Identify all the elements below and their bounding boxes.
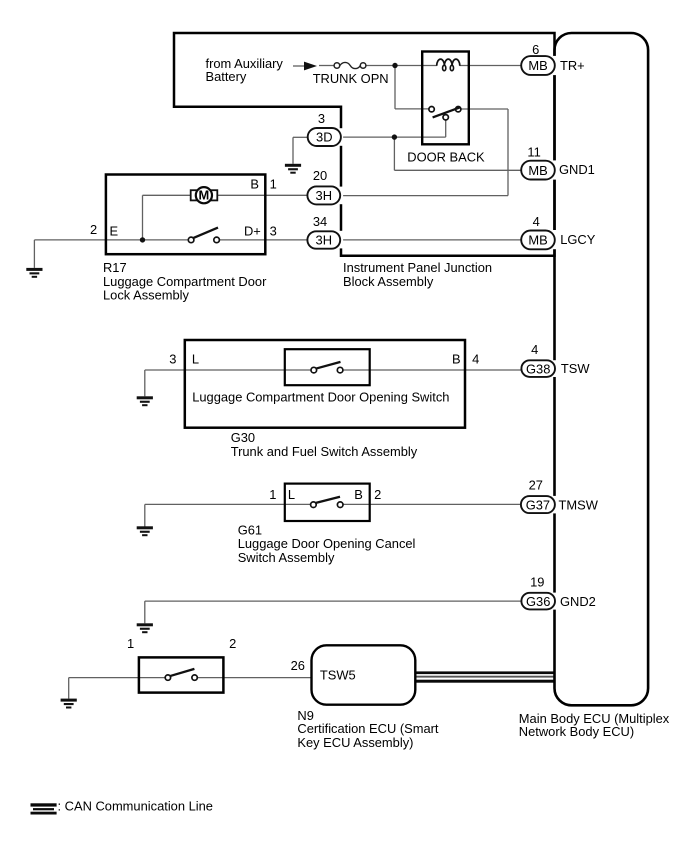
svg-text:G61: G61 <box>238 522 262 537</box>
svg-text:3H: 3H <box>316 233 332 248</box>
svg-text:GND2: GND2 <box>560 594 596 609</box>
svg-text:Lock Assembly: Lock Assembly <box>103 287 190 302</box>
svg-text:Network Body ECU): Network Body ECU) <box>519 724 634 739</box>
svg-text:MB: MB <box>528 233 547 248</box>
svg-text:Luggage Compartment Door Openi: Luggage Compartment Door Opening Switch <box>192 389 449 404</box>
svg-text:27: 27 <box>529 477 543 492</box>
svg-text:3: 3 <box>270 223 277 238</box>
svg-text:: CAN Communication Line: : CAN Communication Line <box>58 799 213 814</box>
svg-text:G36: G36 <box>526 594 550 609</box>
svg-text:L: L <box>192 351 199 366</box>
svg-text:TSW: TSW <box>561 361 590 376</box>
svg-text:19: 19 <box>530 574 544 589</box>
svg-text:3: 3 <box>169 351 176 366</box>
svg-text:GND1: GND1 <box>559 162 595 177</box>
svg-text:26: 26 <box>291 658 305 673</box>
svg-text:11: 11 <box>527 144 540 159</box>
svg-text:Battery: Battery <box>206 69 247 84</box>
svg-text:Certification ECU (Smart: Certification ECU (Smart <box>297 721 439 736</box>
svg-text:TR+: TR+ <box>560 58 585 73</box>
svg-text:G38: G38 <box>526 361 550 376</box>
svg-text:2: 2 <box>374 487 381 502</box>
svg-text:TSW5: TSW5 <box>320 667 356 682</box>
svg-text:3D: 3D <box>316 130 332 145</box>
svg-text:TRUNK OPN: TRUNK OPN <box>313 71 389 86</box>
svg-text:G30: G30 <box>231 430 255 445</box>
svg-text:LGCY: LGCY <box>560 232 596 247</box>
svg-text:3H: 3H <box>316 188 332 203</box>
svg-text:Trunk and Fuel Switch Assembly: Trunk and Fuel Switch Assembly <box>231 444 418 459</box>
svg-text:Key ECU Assembly): Key ECU Assembly) <box>297 735 413 750</box>
svg-text:D+: D+ <box>244 223 261 238</box>
svg-text:M: M <box>199 188 210 203</box>
svg-text:MB: MB <box>528 58 547 73</box>
svg-text:2: 2 <box>229 636 236 651</box>
svg-text:6: 6 <box>532 42 539 57</box>
svg-text:B: B <box>452 351 461 366</box>
svg-text:Luggage Door Opening Cancel: Luggage Door Opening Cancel <box>238 536 416 551</box>
svg-text:34: 34 <box>313 214 327 229</box>
svg-text:1: 1 <box>270 177 277 192</box>
svg-text:3: 3 <box>318 111 325 126</box>
svg-text:G37: G37 <box>526 497 550 512</box>
svg-text:TMSW: TMSW <box>559 497 599 512</box>
svg-text:MB: MB <box>528 163 547 178</box>
svg-text:20: 20 <box>313 168 327 183</box>
svg-text:Block Assembly: Block Assembly <box>343 274 434 289</box>
svg-text:2: 2 <box>90 222 97 237</box>
svg-text:E: E <box>109 223 118 238</box>
svg-text:B: B <box>250 177 259 192</box>
svg-text:4: 4 <box>533 214 540 229</box>
svg-text:4: 4 <box>472 351 479 366</box>
svg-text:1: 1 <box>127 636 134 651</box>
svg-text:4: 4 <box>531 342 538 357</box>
svg-text:DOOR BACK: DOOR BACK <box>407 150 485 165</box>
svg-text:Switch Assembly: Switch Assembly <box>238 550 335 565</box>
svg-text:1: 1 <box>269 487 276 502</box>
svg-text:L: L <box>288 487 295 502</box>
svg-text:B: B <box>354 487 363 502</box>
